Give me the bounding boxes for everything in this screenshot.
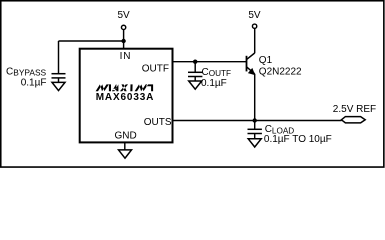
- Maxim logo: [96, 84, 154, 91]
- power terminal 5V right: [248, 10, 261, 28]
- svg-text:OUTS: OUTS: [144, 117, 172, 128]
- wire from junction to CBYPASS: [59, 40, 124, 42]
- ground under GND pin: [119, 142, 132, 158]
- svg-text:2.5V REF: 2.5V REF: [333, 104, 376, 115]
- ground under CBYPASS: [52, 82, 65, 90]
- wire OUTF to transistor base: [173, 61, 247, 63]
- power terminal 5V left: [117, 10, 130, 30]
- node 2.5V REF output port: [333, 104, 376, 123]
- junction node at COUTF: [193, 60, 197, 64]
- wire OUTS to 2.5V REF: [173, 120, 342, 122]
- wire from 5V right to collector: [254, 29, 256, 54]
- svg-text:5V: 5V: [117, 10, 130, 21]
- IC MAX6033A: [80, 49, 173, 143]
- svg-text:COUTF: COUTF: [202, 67, 232, 78]
- svg-text:Q2N2222: Q2N2222: [259, 67, 302, 78]
- svg-text:0.1µF: 0.1µF: [201, 78, 227, 89]
- svg-text:Q1: Q1: [259, 55, 273, 66]
- svg-text:IN: IN: [120, 51, 132, 62]
- junction node at IN supply: [121, 39, 125, 43]
- svg-text:GND: GND: [114, 131, 136, 142]
- svg-text:MAX6033A: MAX6033A: [96, 92, 155, 103]
- wire from 5V left to IN pin: [123, 30, 125, 49]
- svg-text:0.1µF: 0.1µF: [21, 78, 47, 89]
- svg-text:5V: 5V: [248, 10, 261, 21]
- wire emitter down to OUTS node: [254, 74, 256, 121]
- junction node at CLOAD: [253, 118, 257, 122]
- capacitor CLOAD 0.1uF to 10uF: [248, 121, 332, 146]
- capacitor CBYPASS 0.1uF: [6, 41, 66, 89]
- ground under CLOAD: [248, 139, 261, 147]
- capacitor COUTF 0.1uF: [188, 62, 231, 89]
- svg-text:CBYPASS: CBYPASS: [6, 66, 47, 77]
- ground under COUTF: [189, 81, 202, 89]
- transistor Q1 Q2N2222: [247, 53, 303, 78]
- svg-text:0.1µF TO 10µF: 0.1µF TO 10µF: [264, 134, 332, 145]
- svg-text:OUTF: OUTF: [142, 64, 169, 75]
